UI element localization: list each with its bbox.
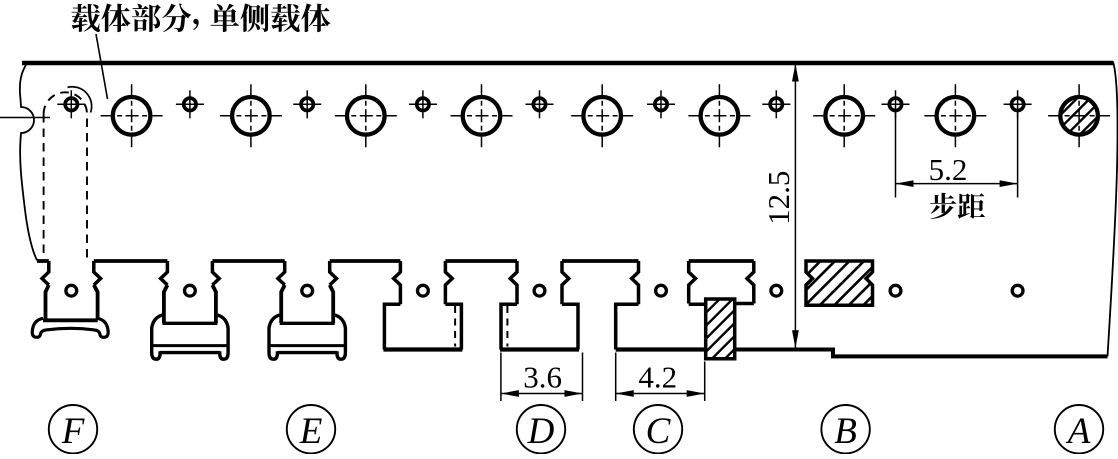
- svg-text:12.5: 12.5: [761, 171, 796, 225]
- svg-text:3.6: 3.6: [523, 360, 562, 395]
- svg-text:D: D: [527, 411, 555, 452]
- svg-text:B: B: [834, 411, 857, 452]
- svg-text:4.2: 4.2: [638, 360, 677, 395]
- svg-text:E: E: [299, 411, 323, 452]
- svg-text:F: F: [61, 411, 85, 452]
- svg-text:5.2: 5.2: [929, 152, 968, 187]
- svg-text:A: A: [1065, 411, 1091, 452]
- svg-text:C: C: [646, 411, 672, 452]
